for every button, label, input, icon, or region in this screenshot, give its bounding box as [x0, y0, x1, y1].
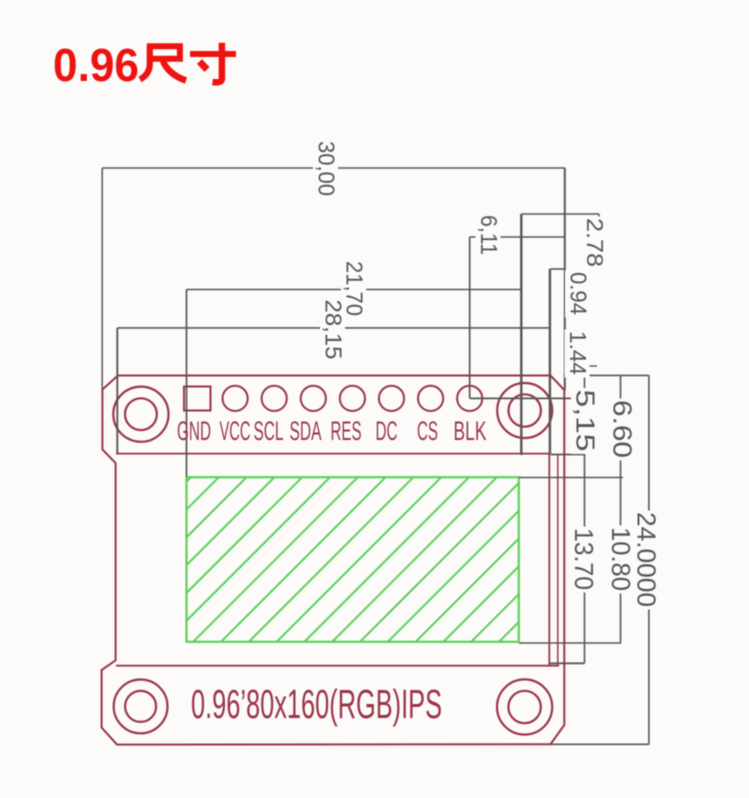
svg-text:CS: CS	[417, 416, 438, 446]
svg-text:DC: DC	[376, 416, 398, 446]
svg-text:SDA: SDA	[290, 416, 322, 446]
svg-text:0.96’80x160(RGB)IPS: 0.96’80x160(RGB)IPS	[191, 681, 442, 727]
svg-text:SCL: SCL	[254, 416, 284, 446]
svg-text:BLK: BLK	[454, 416, 487, 446]
svg-text:10.80: 10.80	[606, 527, 636, 591]
svg-text:VCC: VCC	[220, 416, 251, 446]
svg-text:RES: RES	[331, 416, 362, 446]
svg-text:24.0000: 24.0000	[632, 512, 662, 607]
svg-text:2.78: 2.78	[582, 218, 608, 267]
svg-text:0.94: 0.94	[566, 272, 592, 315]
svg-text:0.96: 0.96	[53, 39, 139, 91]
svg-text:6,11: 6,11	[476, 215, 502, 255]
svg-text:6.60: 6.60	[608, 400, 638, 458]
svg-text:28,15: 28,15	[321, 300, 347, 360]
svg-text:13.70: 13.70	[569, 528, 599, 590]
svg-text:GND: GND	[177, 416, 211, 446]
svg-text:30,00: 30,00	[314, 141, 340, 196]
svg-text:5,15: 5,15	[571, 390, 601, 452]
svg-text:1.44: 1.44	[565, 331, 591, 375]
